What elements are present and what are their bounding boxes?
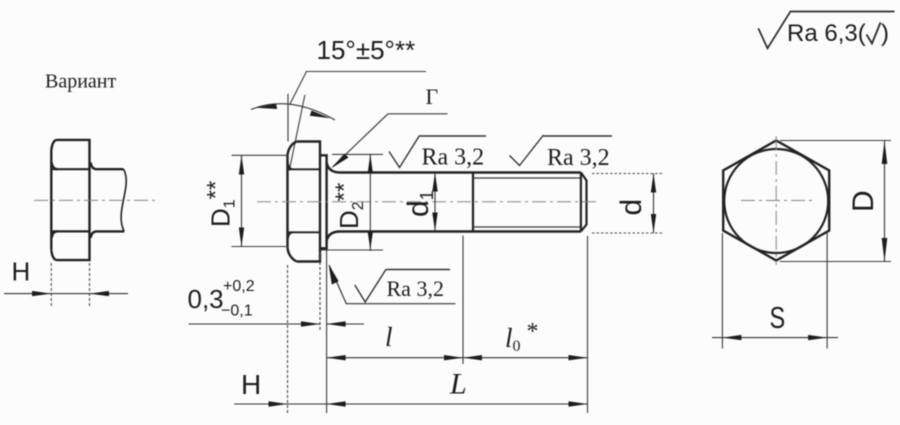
variant H arrows <box>32 291 109 296</box>
S dimension line <box>712 337 838 339</box>
S extension lines <box>722 233 827 349</box>
hexagon head end view <box>723 141 829 261</box>
svg-text:+0,2: +0,2 <box>223 278 255 295</box>
general roughness mark Ra 6,3 <box>758 11 894 49</box>
l0 arrows <box>463 355 588 360</box>
d dimension line <box>653 174 655 234</box>
l dimension line <box>327 357 463 359</box>
Ra 3,2 leader arrowhead <box>329 264 339 285</box>
angle arc arrowheads <box>256 104 277 110</box>
vertical extension line above head <box>287 94 289 142</box>
d arrows <box>651 174 656 234</box>
main head outline <box>288 142 321 262</box>
d extension lines <box>592 174 664 234</box>
H L dimension line <box>234 403 588 405</box>
variant shank boss with break line <box>91 163 127 239</box>
svg-text:0,3: 0,3 <box>188 284 224 314</box>
15 degree leader diagonal <box>290 72 307 105</box>
Ra 3,2 leader to bearing fillet <box>329 266 455 304</box>
variant head outline <box>51 140 89 260</box>
flange right face extension line <box>326 249 328 413</box>
hex center cross <box>741 200 812 202</box>
chamfer circle <box>724 149 828 253</box>
Ra 3,2 mark on shank <box>389 136 486 168</box>
svg-text:D2**: D2** <box>331 183 367 229</box>
S arrows <box>722 335 827 340</box>
svg-text:H: H <box>241 369 261 400</box>
main head facet lines <box>288 163 321 238</box>
main centerline <box>257 201 599 203</box>
head left face dashed extension <box>287 265 289 413</box>
d1 arrows <box>432 173 437 232</box>
thread minor diameter lines <box>473 178 581 227</box>
svg-text:D1**: D1** <box>203 181 239 227</box>
15 degree chamfer construction line <box>289 95 305 171</box>
svg-text:Ra 3,2: Ra 3,2 <box>547 145 610 171</box>
0,3 arrows <box>301 321 346 326</box>
L right arrow <box>569 401 588 406</box>
D2 dimension line <box>369 154 371 251</box>
Ra 3,2 mark on thread <box>510 135 613 166</box>
D extension lines <box>780 141 891 262</box>
svg-text:15°±5°**: 15°±5°** <box>317 35 416 65</box>
variant centerline <box>34 199 156 201</box>
variant head facet lines <box>51 163 89 238</box>
svg-text:Ra 3,2: Ra 3,2 <box>387 276 444 301</box>
D1 dimension line <box>241 155 243 246</box>
thread start extension line <box>462 236 464 365</box>
d1 dimension line <box>434 173 436 232</box>
D arrows <box>882 141 888 262</box>
svg-text:Г: Г <box>426 84 439 109</box>
D1 extension lines <box>232 155 288 246</box>
svg-text:S: S <box>770 300 786 335</box>
svg-text:l: l <box>385 322 393 352</box>
svg-text:L: L <box>449 368 467 401</box>
variant H dimension line <box>4 293 128 295</box>
svg-text:d: d <box>615 199 648 216</box>
flange (washer face) <box>320 155 327 248</box>
Г leader arrowhead <box>331 154 349 169</box>
svg-text:d1: d1 <box>402 190 437 217</box>
svg-text:Ra 3,2: Ra 3,2 <box>422 145 485 171</box>
D2 arrows <box>368 154 373 250</box>
H arrow <box>269 401 288 406</box>
bolt end extension line <box>587 236 589 413</box>
D dimension line <box>884 141 886 262</box>
svg-text:H: H <box>12 257 31 287</box>
shank top edge with fillet <box>327 163 581 173</box>
svg-text:−0,1: −0,1 <box>221 303 253 320</box>
l arrows <box>327 355 463 360</box>
svg-text:Вариант: Вариант <box>45 71 117 93</box>
D2 extension lines <box>320 154 383 250</box>
svg-text:Ra 6,3(: Ra 6,3( <box>787 20 866 47</box>
Г label underline <box>388 113 448 115</box>
0,3 dimension lines <box>189 323 365 325</box>
small check inside parens <box>867 23 881 44</box>
bolt end face with chamfers <box>581 173 587 232</box>
L left arrow <box>327 401 346 406</box>
shank bottom edge with fillet <box>327 232 581 242</box>
svg-text:D: D <box>847 190 880 212</box>
Г leader line <box>333 114 388 167</box>
thread start line <box>472 173 474 232</box>
Ra 3,2 check mark on shelf <box>355 270 450 303</box>
15 degree label underline <box>306 71 426 73</box>
head right face dashed extension <box>319 252 321 331</box>
D1 arrows <box>239 155 244 246</box>
svg-text:l0 *: l0 * <box>505 319 539 355</box>
variant H extension lines <box>51 263 89 307</box>
thread end chamfer line <box>580 173 582 232</box>
angle dimension arc <box>251 104 335 120</box>
svg-text:): ) <box>881 20 889 47</box>
l0 dimension line <box>463 357 588 359</box>
